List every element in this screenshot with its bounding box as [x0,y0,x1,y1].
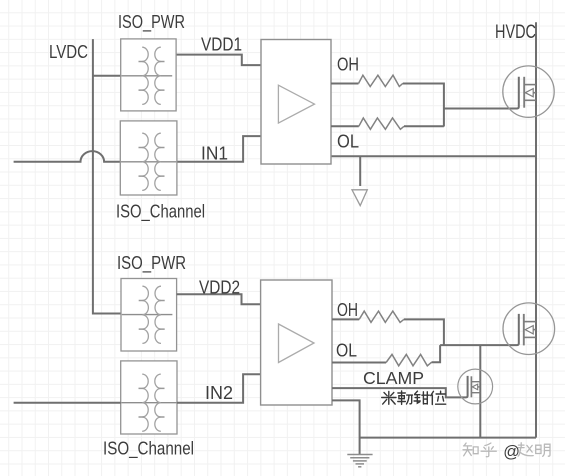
svg-text:OL: OL [336,341,357,361]
resistor R1 (OH1) [359,75,403,86]
wire driver U2 COM down to ground [332,400,360,454]
transformer box ISO_Channel1 [120,121,177,195]
resistor R4 (OL2) [386,354,431,365]
wire VDD2 from ISO_PWR2 to driver U2 [177,294,261,304]
钳 [414,391,429,404]
svg-text:OH: OH [337,300,358,320]
wire R2 to junction bar [404,125,444,127]
driver U1 box [261,40,331,165]
wire VDD1 from ISO_PWR1 to driver U1 [176,55,261,66]
svg-text:IN1: IN1 [201,144,228,164]
svg-text:HVDC: HVDC [495,21,536,43]
wire R3 to junction bar [404,319,444,345]
node LVDC rail [93,39,121,313]
label 米勒钳位 (Miller clamp, drawn glyphs) [382,391,446,404]
svg-text:OL: OL [337,132,359,152]
svg-text:ISO_Channel: ISO_Channel [116,202,205,223]
wire IN2 from ISO_Channel2 to driver U2 [177,374,261,403]
米 [382,392,396,405]
知 [463,443,478,456]
resistor R2 (OL1) [359,118,404,129]
wire gate Q1 [444,77,519,109]
svg-text:IN2: IN2 [205,383,233,403]
wire R1 to junction bar [403,84,444,127]
driver U1 buffer triangle [278,85,314,123]
wire IN1 from ISO_Channel1 to driver U1 [177,136,261,162]
wire clamp FET drain to gate node Q2 [479,345,481,438]
wire gate Q2 [440,314,519,345]
transistor Q1 (high-side MOSFET) [503,66,554,117]
svg-text:OH: OH [337,55,359,75]
wire input IN1 left segment with hop over LVDC rail [14,151,121,162]
勒 [398,391,413,404]
svg-text:ISO_Channel: ISO_Channel [103,439,194,460]
svg-text:VDD1: VDD1 [201,35,242,55]
resistor R3 (OH2) [359,311,404,322]
svg-text:@: @ [503,443,520,461]
wire OL1 [331,125,359,127]
赵 [518,443,533,456]
wire CLAMP from driver U2 to clamp FET gate [332,388,466,397]
wire OH2 [332,318,359,320]
乎 [481,443,496,457]
node HVDC rail [535,22,537,437]
wire OL2 [332,362,386,364]
svg-text:LVDC: LVDC [49,42,88,62]
transistor Q2 (low-side MOSFET) [503,303,555,355]
svg-text:CLAMP: CLAMP [363,368,424,388]
driver U2 buffer triangle [279,324,315,363]
明 [536,444,550,456]
wire input IN2 left segment [14,402,121,404]
transformer box ISO_PWR2 [121,279,177,352]
wire OH1 [331,83,359,85]
wire bottom ground rail [360,437,536,439]
ground (earth symbol) [347,455,372,467]
label watermark 知乎 @赵明 (drawn glyphs) [463,443,550,461]
svg-text:ISO_PWR: ISO_PWR [117,253,186,274]
位 [431,391,446,404]
wire LVDC branch to ISO_PWR1 [93,75,121,77]
transistor Q3 (Miller clamp MOSFET) [458,369,493,404]
wire gate lead clamp FET [466,376,468,398]
transformer box ISO_Channel2 [121,361,177,434]
svg-text:ISO_PWR: ISO_PWR [118,12,185,33]
ground (signal ground triangle) [352,190,367,206]
ground stem under driver U1 [359,156,361,186]
driver U2 box [261,280,332,405]
wire driver U1 COM to switch node [331,155,536,157]
wire R4 to junction bar [432,345,441,362]
svg-text:VDD2: VDD2 [199,278,240,298]
transformer box ISO_PWR1 [121,39,176,111]
